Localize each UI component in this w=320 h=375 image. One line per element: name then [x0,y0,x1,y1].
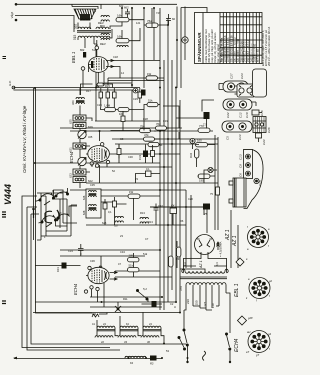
svg-text:C20: C20 [188,197,193,201]
wire IF transformer links [97,312,164,344]
IF transformer MF1 [95,322,115,344]
wire right bus x191 [190,195,192,268]
wire transformer drop 1 [230,210,232,268]
switch wafer S1b [53,192,69,198]
svg-text:662: 662 [124,6,129,10]
table grid [220,13,262,64]
switch wafer S1d [55,214,70,220]
wire mid horizontal y163 [35,162,160,164]
wire mid vertical x96 [95,45,97,121]
svg-text:51k: 51k [148,99,153,103]
IF can side view [253,69,267,97]
resistor R47k [144,133,155,141]
resistor R16ka [116,14,129,22]
svg-text:C10: C10 [245,112,249,118]
switch rotor contact 2 [57,210,59,221]
jack P1 [182,37,188,43]
tube ECH4 mixer [82,143,109,168]
svg-text:REV: REV [100,42,106,46]
capacitor C6u5 [176,112,210,127]
capacitor C4s [170,204,177,214]
svg-text:R6: R6 [180,219,184,223]
wire top feed to right bus [177,7,207,89]
wire mid horizontal y277 [115,276,172,278]
wire mid vertical x154 [153,8,155,60]
svg-text:800: 800 [100,24,105,28]
svg-text:aT: aT [246,350,249,354]
resistor Rtop [97,83,104,86]
wire tube ECH4 IF pins [86,256,104,307]
wire mid horizontal y183 [86,182,218,184]
connector block K1 [235,84,258,97]
capacitor C47 [141,90,146,96]
svg-text:150: 150 [194,300,198,305]
svg-text:337: 337 [74,23,78,29]
svg-text:C2: C2 [170,302,174,306]
wire switch links [22,188,77,226]
coil L629 [73,123,93,130]
svg-text:121: 121 [136,21,141,25]
wire mid horizontal y121 [95,120,160,122]
wire mid horizontal y131 [70,130,213,132]
svg-text:R15: R15 [105,84,110,88]
meter M3 [133,88,138,93]
svg-text:625: 625 [102,221,107,225]
switch rotor contact 1 [45,211,52,223]
wire loom vertical 6 [179,100,181,312]
transformer T2 secondary row [185,271,225,273]
svg-text:ber. utan signal: ber. utan signal [216,44,220,63]
varcap C1 [78,130,86,138]
wire loom vertical 5 [175,88,177,302]
resistor R762 [146,19,158,27]
wire loom vertical 3 [167,18,169,302]
svg-text:4,4: 4,4 [215,262,219,266]
margin mark 3 [2,301,6,304]
varcap C2 [78,157,86,165]
resistor R1M6 [104,104,116,112]
coil REV winding [96,21,109,29]
svg-text:C19: C19 [163,119,168,123]
svg-text:C31: C31 [138,154,142,160]
switch wafer S1c [39,215,57,227]
svg-text:C23: C23 [240,73,244,79]
wire mid vertical x132 [131,8,133,121]
wire mid horizontal y128 [60,127,182,129]
svg-text:628: 628 [82,210,86,215]
transformer T2 primary row [186,283,226,285]
svg-text:C34: C34 [120,250,125,254]
trimmer strip 2 [223,99,256,110]
svg-text:747: 747 [156,11,161,15]
svg-text:C7: C7 [145,237,149,241]
svg-text:629: 629 [88,125,93,129]
switch S3 [136,287,148,300]
svg-text:16k: 16k [117,35,122,39]
resistor R32 [189,149,199,158]
svg-text:C4: C4 [171,204,175,208]
transformer T1 core [77,31,111,33]
svg-text:C3: C3 [120,137,124,141]
svg-text:C14: C14 [238,134,242,140]
wire left coil column [80,88,92,188]
resistor R750 [140,125,151,133]
node antenna arrow [15,3,18,6]
tap wires T2 [186,285,226,310]
svg-text:200 mV — EBL1 AZ1 nätstr. 60 m: 200 mV — EBL1 AZ1 nätstr. 60 mA [268,26,271,67]
IF coil L630 [140,217,153,224]
wire mid horizontal y144 [115,143,218,145]
wire AZ1 anodes to winding [183,255,226,273]
wire loom vertical 1 [159,8,161,310]
capacitor C44 [121,111,125,126]
wire mid vertical x144 [143,8,145,88]
svg-text:110: 110 [211,303,215,308]
switch S2a [183,329,189,346]
svg-text:K: K [60,211,62,215]
svg-text:C28: C28 [143,117,148,121]
switch S4 [178,336,186,350]
margin mark 2 [2,212,6,217]
svg-text:C5: C5 [226,136,230,140]
wire mid horizontal y250 [60,249,160,251]
wire jack leads [184,7,186,61]
svg-text:C29: C29 [133,97,138,101]
resistor R190 [198,174,210,183]
coil L800a [100,15,109,28]
wire transformer drop 2 [237,225,239,268]
table note text [204,29,220,63]
svg-text:C35: C35 [90,183,95,187]
svg-text:0,1: 0,1 [146,167,150,171]
svg-text:AZ 1: AZ 1 [232,235,238,247]
table header SPANNINGAR [197,13,203,64]
mains tilde [203,351,206,361]
svg-text:ECH4: ECH4 [69,151,74,163]
svg-text:C25: C25 [97,103,102,107]
svg-text:Vågf.: Vågf. [10,11,14,18]
capacitor C40 [99,88,103,102]
svg-text:51k: 51k [129,264,134,268]
socket AZ1 [247,225,270,251]
wire speaker return [15,16,74,33]
svg-text:C10: C10 [158,204,163,208]
coil L625 [69,115,87,124]
svg-text:60: 60 [172,17,176,21]
svg-text:SPÄNNINGAR: SPÄNNINGAR [197,32,202,62]
svg-text:326: 326 [71,100,75,105]
transformer T2 core [180,277,227,279]
capacitor C41 [106,88,110,102]
wire top component links [118,8,168,41]
wire mid horizontal y271 [115,270,160,272]
table side note EBL1 [262,26,271,67]
wire GP ground bus [14,88,141,91]
svg-text:47k: 47k [144,133,149,137]
svg-text:R9: R9 [176,257,180,261]
wire mains branch [186,293,230,319]
switch stator lug [32,209,35,218]
wire bottom horizontal y312 [33,312,180,314]
svg-text:621: 621 [69,147,73,152]
svg-text:515: 515 [73,34,77,40]
capacitor C30 [117,145,121,159]
svg-text:127: 127 [203,301,207,306]
wire loom vertical 2 [163,60,165,310]
svg-text:R11: R11 [123,297,128,301]
coil L63 [125,356,146,365]
wire mid horizontal y190 [70,189,186,191]
coil L623 [69,169,87,178]
padder block hatched [253,117,266,133]
svg-text:C6: C6 [239,173,243,177]
resistor R770 [198,124,210,132]
svg-text:160: 160 [197,139,202,143]
capacitor C43 [138,88,142,102]
IF coil L627 [114,216,123,227]
capacitor C662 [124,6,130,18]
svg-text:R13: R13 [56,267,60,272]
transformer T1 secondary 515 [73,34,110,40]
svg-text:370: 370 [179,286,183,291]
resistor R762b [156,122,167,130]
wire misc links [35,21,217,314]
svg-text:51k: 51k [143,252,148,256]
wire loom vertical 4 [171,60,173,290]
node GP terminal [12,86,15,89]
wire right bus x186 [185,190,187,268]
svg-text:C18: C18 [113,55,118,59]
resistor R51k [147,99,158,107]
svg-text:5,2: 5,2 [143,287,147,291]
wire mains down [184,305,230,362]
svg-text:R32: R32 [189,152,193,158]
svg-text:EBL 1: EBL 1 [234,283,240,297]
switch wafer S1a [37,193,55,205]
wire bottom horizontal y302 [35,301,176,303]
IF transformer MF2 [118,322,138,344]
resistor RNW1 [128,190,140,198]
svg-text:AZ 1: AZ 1 [199,260,203,269]
table SPANNINGAR frame [195,13,263,64]
svg-text:g/W: g/W [248,316,253,320]
lamp diamond 2 [238,316,254,325]
coil L622 [73,177,93,184]
wire HT centre tap [180,269,205,272]
svg-text:325: 325 [88,135,93,139]
svg-text:M: M [52,189,54,193]
node bottom arrow [13,357,17,360]
capacitor C32 [151,151,155,157]
tube ECH4 IF [84,262,117,293]
svg-text:16k: 16k [117,14,122,18]
svg-text:C30: C30 [128,155,133,159]
capacitor C42 [113,88,117,102]
svg-text:R13: R13 [140,211,145,215]
svg-text:1W: 1W [147,72,152,76]
lamp diamond 1 [236,258,248,266]
svg-text:0,1: 0,1 [108,210,112,214]
svg-text:C24: C24 [262,139,266,145]
margin mark 1 [3,57,7,59]
resistor Rvert2 [177,247,181,257]
svg-text:762: 762 [156,122,161,126]
wire nested loop 1 [22,200,110,348]
svg-text:762: 762 [147,19,152,23]
svg-text:R13: R13 [148,220,153,224]
tube AZ1 rectifier [195,235,215,255]
resistor Rzig [92,314,99,317]
svg-text:C22: C22 [226,112,230,118]
svg-text:m.4 V — 60: m.4 V — 60 [257,49,260,62]
micro labels scatter [44,4,213,353]
trimmer C15 [254,178,262,186]
svg-text:626: 626 [82,195,86,200]
capacitor C39 [108,197,117,214]
wire bottom horizontal y297 [90,296,162,298]
resistor R3 [150,356,157,366]
svg-text:51: 51 [160,143,164,147]
wire mid horizontal y207 [150,207,207,233]
capacitor C38 [103,199,107,213]
svg-text:190: 190 [199,179,204,183]
svg-text:gT: gT [256,353,259,357]
coil L621 [69,143,87,152]
svg-text:R17: R17 [86,89,91,93]
resistor R22k [148,143,163,148]
trimmer C16 [252,110,264,116]
socket ECH4 [246,330,271,357]
svg-text:ECH4: ECH4 [234,338,240,352]
svg-text:C33: C33 [68,249,73,253]
svg-text:aH: aH [247,330,250,334]
svg-text:C15: C15 [258,180,262,186]
capacitor C60 [166,14,176,25]
wire mid horizontal y167 [95,166,172,168]
svg-text:220: 220 [186,299,190,304]
coil L800b [100,33,109,46]
socket EBL1 [246,278,272,303]
svg-text:4,4: 4,4 [183,262,187,266]
wire bottom horizontal y307 [90,306,162,308]
resistor R160 [196,139,208,147]
svg-text:C16: C16 [260,110,264,116]
svg-text:EBL 1: EBL 1 [71,52,76,63]
wire right bus x218 [217,137,219,230]
capacitor C10s [154,204,164,215]
IF transformer MF3 [141,322,161,344]
resistor R glow vertical [169,256,174,267]
capacitor C46 [152,301,157,307]
svg-text:C26: C26 [267,127,271,133]
trimmer strip 3 [222,121,252,132]
wire bottom rail with arrow [14,358,162,360]
resistor R862 [80,48,86,58]
svg-text:C9: C9 [239,164,243,168]
svg-text:Omk. KV+MV+LV, Ritad i KV-läge: Omk. KV+MV+LV, Ritad i KV-läge [22,105,27,173]
svg-text:C13: C13 [239,154,243,160]
wire right bus stub [216,187,220,195]
svg-text:C36: C36 [90,259,95,263]
wire switch lattice [37,190,77,240]
svg-text:623: 623 [69,173,73,178]
wire antenna top line [16,4,177,9]
svg-text:75: 75 [204,212,208,216]
gang capacitor side view [229,178,246,207]
switch S2b [225,333,231,350]
wire heater pair [108,78,164,85]
resistor RNW2 [128,254,140,262]
svg-text:AZ 1: AZ 1 [225,229,231,241]
svg-text:515: 515 [92,48,97,52]
svg-text:C12: C12 [239,112,243,118]
table cell values [221,35,260,62]
crystal X1 [115,306,121,312]
IF can T3 [82,189,101,218]
trimmer strip 1 [219,81,248,92]
tube EBL1 (output pentode) [81,46,113,72]
wire tube EBL1 pins [83,40,160,88]
resistor R16kb [116,35,129,43]
svg-text:G.P.: G.P. [8,80,12,86]
svg-text:1W: 1W [129,254,134,258]
svg-text:622: 622 [88,179,93,183]
resistor R13b [56,263,67,273]
svg-text:862: 862 [80,48,85,52]
wire transformer to tube [85,38,97,48]
wire left main vertical [34,88,93,313]
svg-text:R3: R3 [150,362,154,366]
coil L48 [117,45,128,47]
svg-text:V444: V444 [3,184,13,205]
trimmer panel C13 C9 C6 [244,150,253,179]
meter M2 [208,167,213,172]
arrows current [217,242,220,250]
wire mid horizontal y154 [86,153,180,155]
chassis outline curve [244,150,264,209]
svg-text:C27: C27 [230,73,234,79]
svg-text:625: 625 [69,119,73,124]
resistor RNW3 [146,72,158,80]
capacitor C31 [138,151,148,161]
trimmer C24 [256,133,267,145]
wire mid horizontal y256 [60,255,145,257]
meter M1 [190,138,195,143]
svg-text:ECH4: ECH4 [73,283,78,295]
capacitor C45 [78,244,84,255]
wire nested loop 3 [31,214,186,344]
wire rectifier top [150,207,207,215]
wire mid horizontal y225 [86,224,186,226]
resistor R16kc [118,108,129,117]
speaker LS [74,9,96,21]
svg-text:1W: 1W [129,190,134,194]
resistor R51kb [128,264,140,272]
wire mid horizontal y139 [112,138,218,140]
svg-text:662: 662 [119,4,124,8]
coil L326 [71,97,84,105]
transformer T1 primary winding [78,27,91,29]
wire nested loop 2 [27,207,120,350]
wire right bus x215 [214,135,216,230]
wire speaker to transformer [78,23,118,41]
capacitor C75 [203,204,210,217]
capacitor C33 [146,167,152,177]
